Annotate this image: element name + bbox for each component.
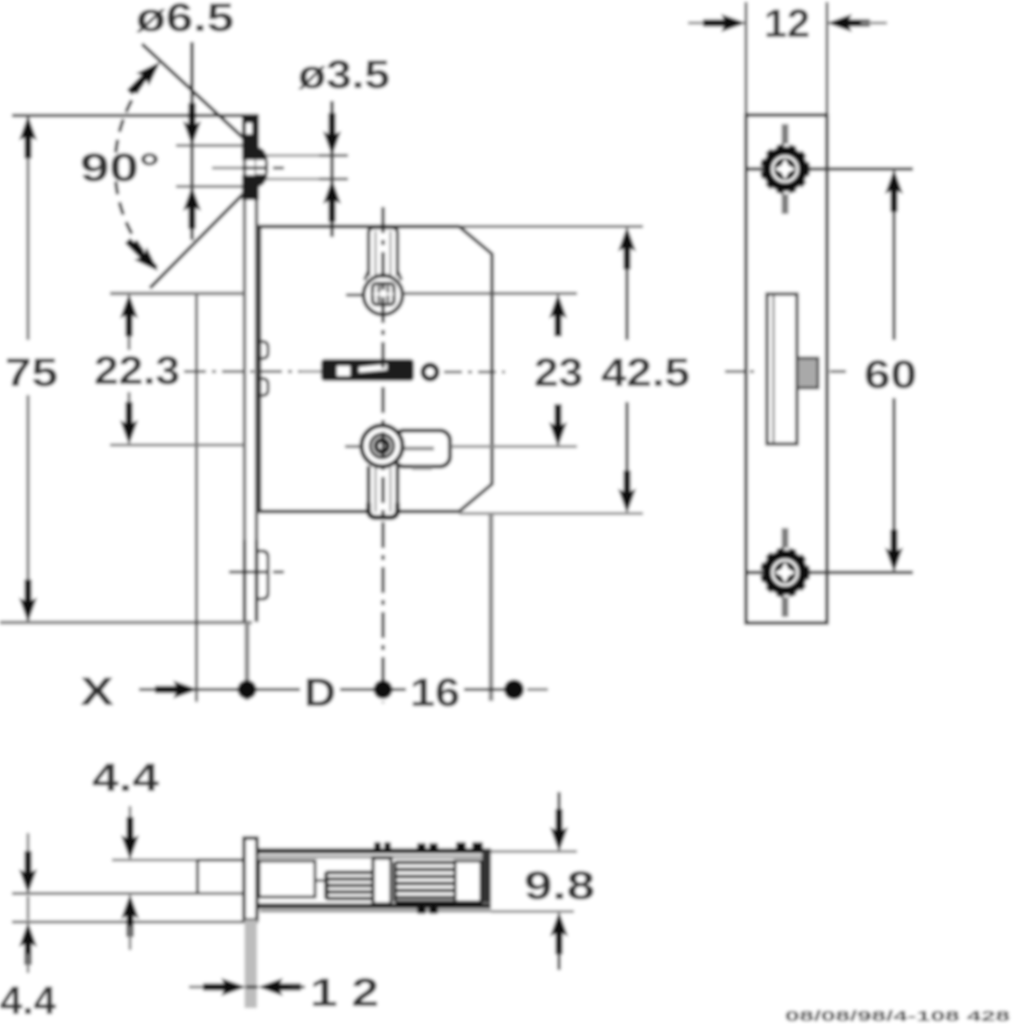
svg-text:12: 12 bbox=[764, 2, 810, 46]
svg-text:4.4: 4.4 bbox=[92, 756, 160, 800]
svg-text:90°: 90° bbox=[80, 146, 160, 190]
svg-text:9.8: 9.8 bbox=[524, 864, 595, 908]
svg-text:22.3: 22.3 bbox=[94, 349, 180, 393]
svg-text:75: 75 bbox=[5, 351, 58, 395]
svg-text:1 2: 1 2 bbox=[310, 971, 379, 1015]
svg-text:23: 23 bbox=[534, 351, 583, 395]
svg-text:60: 60 bbox=[864, 353, 917, 397]
svg-text:ø3.5: ø3.5 bbox=[298, 53, 390, 97]
svg-text:16: 16 bbox=[410, 671, 460, 715]
svg-text:42.5: 42.5 bbox=[601, 351, 690, 395]
svg-text:X: X bbox=[80, 670, 114, 714]
svg-text:4.4: 4.4 bbox=[0, 979, 57, 1023]
svg-text:D: D bbox=[304, 671, 336, 715]
svg-text:08/08/98/4-108 428: 08/08/98/4-108 428 bbox=[785, 1008, 1010, 1024]
svg-text:ø6.5: ø6.5 bbox=[136, 0, 234, 40]
